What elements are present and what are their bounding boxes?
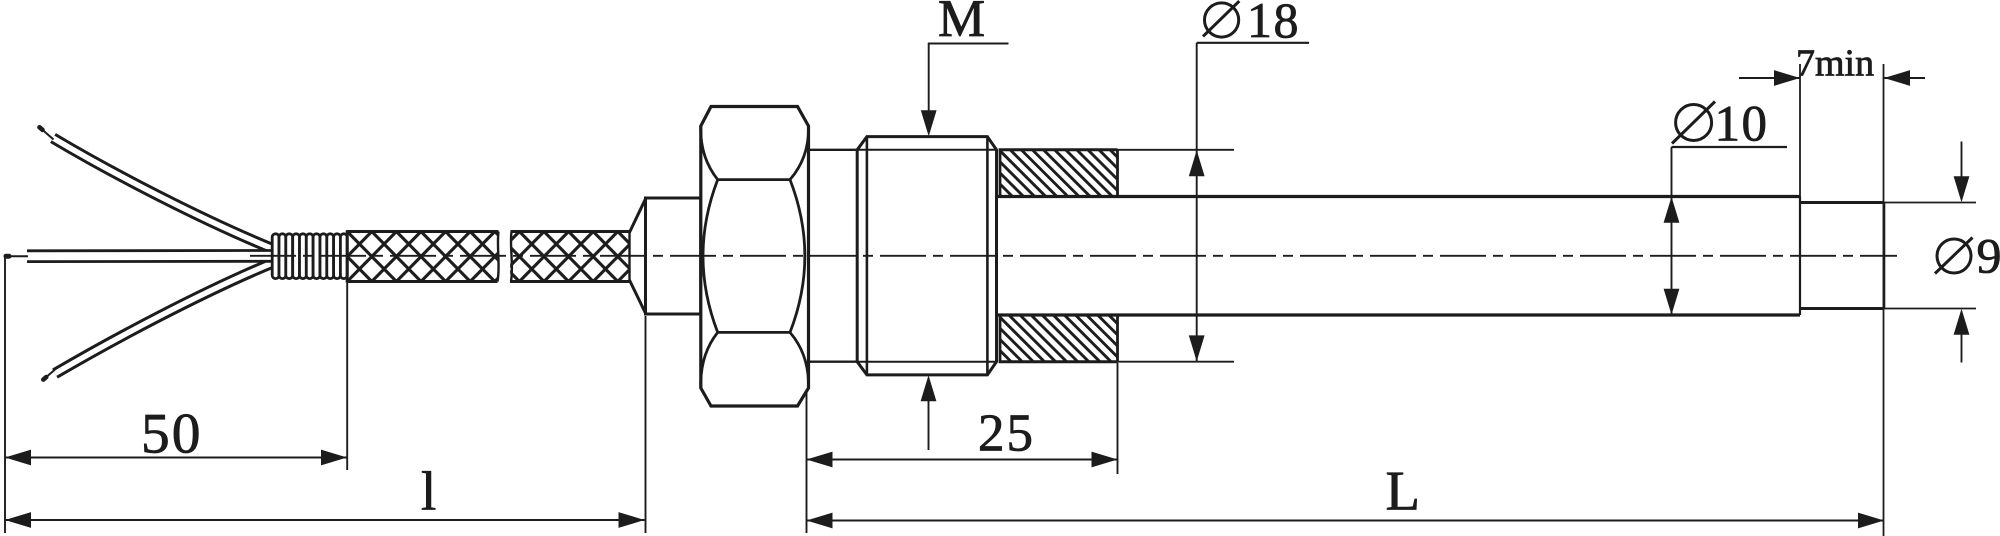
ferrule (strain relief body) — [646, 198, 701, 314]
svg-text:10: 10 — [1715, 96, 1769, 152]
arrows Ø9 — [1954, 176, 1970, 202]
dim 7min lines — [1739, 77, 1800, 79]
svg-text:25: 25 — [978, 405, 1035, 463]
extension line ferrule left — [645, 316, 647, 533]
svg-text:9: 9 — [1977, 228, 2000, 284]
Ø9 symbol — [1935, 238, 1973, 274]
Ø18 symbol — [1203, 1, 1239, 37]
cone transition — [630, 198, 646, 232]
arrows 25 — [807, 452, 833, 468]
svg-text:M: M — [938, 0, 985, 48]
arrows Ø18 — [1189, 150, 1205, 176]
thread root lines — [857, 149, 996, 151]
hex nut body — [701, 107, 809, 407]
mounting boss hatch block top — [1000, 150, 1118, 197]
braid sleeve segment 1 — [347, 232, 498, 282]
dimension line L — [807, 520, 1885, 522]
Ø10 symbol — [1672, 102, 1715, 144]
svg-text:7min: 7min — [1796, 43, 1874, 85]
arrows Ø10 — [1664, 197, 1680, 223]
probe tip Ø9 — [1800, 201, 1884, 204]
svg-text:50: 50 — [141, 403, 203, 466]
dimension line 50 — [5, 457, 347, 459]
M lower leader — [928, 399, 930, 450]
arrows L — [807, 513, 833, 529]
lead wire W1 (upper) — [40, 127, 273, 248]
Ø9 extension lines — [1884, 202, 1976, 204]
extension line nut right — [806, 390, 808, 533]
arrows 7min — [1774, 70, 1800, 86]
extension line left (wire tip) — [4, 258, 6, 533]
arrows 50 — [5, 450, 31, 466]
arrow M bottom — [921, 375, 937, 401]
svg-text:18: 18 — [1247, 0, 1300, 48]
svg-text:l: l — [421, 461, 436, 522]
svg-text:L: L — [1386, 460, 1421, 522]
mounting boss hatch block bottom — [1000, 315, 1118, 362]
Ø9 arrow shafts — [1961, 142, 1963, 178]
dim Ø10 underline and line — [1672, 146, 1788, 148]
lead wire W3 (lower) — [43, 263, 272, 380]
extension line tip end — [1883, 64, 1885, 536]
thread neck lines (Ø18 level) — [809, 149, 858, 151]
hex nut facet arcs — [701, 126, 809, 388]
extension line braid start — [346, 283, 348, 470]
tube step face — [1799, 197, 1801, 316]
extension line boss right — [1117, 363, 1119, 474]
probe tube Ø10 — [997, 195, 1801, 198]
extension line step — [1799, 64, 1801, 197]
dimension line 25 — [807, 459, 1118, 461]
M leader — [928, 43, 1009, 45]
braid sleeve segment 2 — [510, 232, 629, 282]
boss edge extension lines — [1118, 149, 1235, 151]
bushing chamfer edge lines — [866, 137, 869, 375]
arrow M top — [921, 110, 937, 136]
dim Ø18 underline and line — [1197, 42, 1309, 44]
coil spring guard — [272, 234, 347, 279]
arrows l — [5, 512, 31, 528]
lead wire W2 (middle) — [6, 249, 272, 263]
threaded bushing body — [857, 137, 996, 375]
dimension line l — [5, 519, 645, 521]
centerline (dash-dot axis) — [250, 255, 1897, 257]
